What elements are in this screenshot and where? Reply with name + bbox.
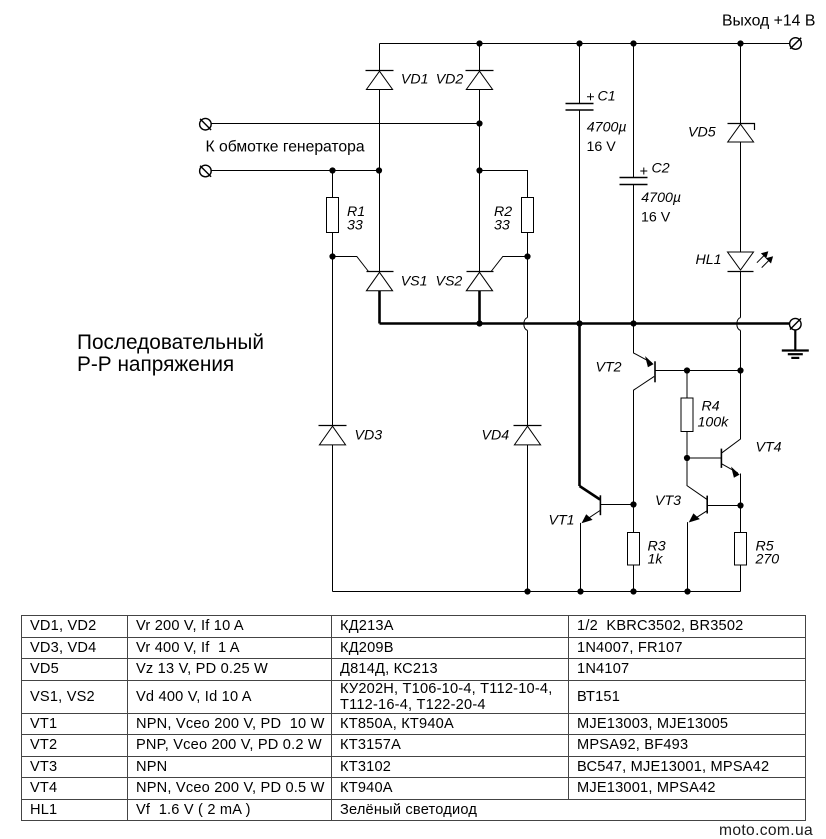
svg-text:VT3: VT3: [655, 493, 681, 509]
resistor R4: [681, 398, 693, 432]
svg-text:VS2: VS2: [436, 274, 463, 290]
wire VT3 collector: [687, 458, 707, 499]
wire VD4 to bottom rail: [527, 445, 529, 592]
wire R2 bottom lead: [527, 233, 529, 257]
wire input phase 2: [211, 170, 379, 172]
svg-text:4700µ: 4700µ: [641, 190, 681, 206]
transistor VT3 bar: [706, 496, 708, 514]
wire thick output column: [578, 324, 581, 487]
diode VD3: [319, 425, 347, 427]
svg-text:Последовательный: Последовательный: [77, 331, 264, 354]
wire R4 top lead: [686, 371, 688, 399]
wire VD1 to VS1: [379, 90, 381, 272]
transistor VT4 emitter: [722, 464, 738, 473]
thyristor VS2: [467, 271, 494, 273]
transistor VT3 emitter: [691, 511, 707, 521]
wire VD5 to HL1: [740, 142, 742, 252]
LED HL1 arrows: [757, 254, 766, 263]
diode VD1: [366, 70, 394, 72]
wire R1 column down to VD3: [332, 257, 334, 426]
wire VS1 cathode thick: [378, 291, 381, 324]
wire R5 to rail: [740, 565, 742, 592]
wire top rail: [380, 43, 790, 45]
transistor VT2 emitter: [634, 324, 652, 363]
transistor VT2 emitter arrowhead: [645, 356, 654, 367]
junction dots: [476, 40, 482, 46]
svg-text:VT2: VT2: [596, 360, 622, 376]
svg-text:VD2: VD2: [436, 72, 464, 88]
wire VD1 anode from top rail down: [379, 44, 381, 71]
transistor VT1 base lead: [601, 504, 634, 506]
svg-text:VT4: VT4: [756, 440, 782, 456]
svg-text:1k: 1k: [648, 552, 664, 568]
transistor VT2 collector: [634, 376, 655, 504]
transistor VT1 emitter: [584, 511, 600, 522]
capacitor C2 plates: [620, 177, 648, 179]
svg-text:16 V: 16 V: [587, 139, 617, 155]
parts table: [21, 615, 806, 821]
wire VS2 gate: [491, 257, 527, 272]
resistor R5: [735, 533, 747, 566]
resistor R2: [522, 198, 534, 233]
svg-text:VD3: VD3: [355, 428, 383, 444]
wire bottom rail: [333, 591, 741, 593]
wire R1 top lead: [332, 171, 334, 198]
terminal ground right: [790, 318, 802, 330]
wire input phase 1: [211, 123, 479, 125]
wire HL1 down with hop over bus: [740, 272, 742, 318]
diode VD2 wire from top rail: [479, 44, 481, 71]
wire R5 top lead: [740, 506, 742, 533]
svg-text:VD1: VD1: [401, 72, 429, 88]
wire ground bus thick: [380, 322, 790, 325]
wire VD3 to bottom rail: [332, 445, 334, 592]
wire VT1 base node to R3: [633, 505, 635, 533]
wire R2 branch: [480, 171, 528, 198]
svg-text:33: 33: [347, 218, 363, 234]
wire R4 bottom lead: [686, 432, 688, 459]
wire VT2 base to R4 and HL1 node: [656, 370, 741, 372]
capacitor C2 plus: [640, 168, 647, 175]
svg-text:C2: C2: [652, 161, 670, 177]
svg-text:Выход +14 В: Выход +14 В: [722, 13, 815, 30]
capacitor C2 leads: [633, 44, 635, 178]
LED HL1 arrowheads: [761, 251, 768, 258]
transistor VT3 base lead: [708, 505, 741, 507]
transistor VT2 bar: [654, 361, 656, 382]
svg-text:Р-Р напряжения: Р-Р напряжения: [77, 353, 234, 376]
wire R2 column down with hop over bus: [527, 257, 529, 318]
transistor VT4 collector: [722, 371, 741, 453]
resistor R1: [327, 198, 339, 233]
capacitor C1 plates: [566, 103, 594, 105]
svg-text:VT1: VT1: [549, 513, 575, 529]
resistor R3: [628, 533, 640, 566]
site watermark: [719, 822, 813, 839]
svg-text:C1: C1: [598, 89, 616, 105]
transistor VT4 emitter arrowhead: [731, 467, 740, 478]
transistor VT3 emitter arrowhead: [689, 513, 700, 522]
thyristor VS1: [367, 271, 394, 273]
transistor VT1 emitter arrowhead: [582, 514, 593, 523]
svg-text:R4: R4: [702, 399, 720, 415]
wire VD5 from top rail: [740, 44, 742, 124]
svg-text:К обмотке генератора: К обмотке генератора: [206, 139, 365, 156]
diode VD2: [466, 70, 494, 72]
wire VD2 to VS2: [479, 90, 481, 272]
capacitor C1 plus: [587, 93, 594, 100]
svg-text:270: 270: [755, 552, 780, 568]
transistor VT4 bar: [720, 449, 722, 468]
svg-text:VS1: VS1: [401, 274, 428, 290]
wire R1 bottom lead: [332, 233, 334, 257]
diode VD4: [514, 425, 542, 427]
transistor VT1 bar: [599, 495, 601, 515]
terminal input 1: [200, 118, 212, 130]
svg-text:33: 33: [494, 218, 510, 234]
svg-text:100k: 100k: [698, 415, 730, 431]
zener diode VD5: [728, 124, 755, 131]
terminal input 2: [200, 165, 212, 177]
svg-text:16 V: 16 V: [641, 210, 671, 226]
transistor VT1 collector thick: [580, 486, 601, 500]
svg-text:VD4: VD4: [482, 428, 510, 444]
wire VS2 cathode thick: [478, 291, 481, 324]
svg-text:4700µ: 4700µ: [587, 119, 627, 135]
wire VS1 gate: [333, 257, 369, 272]
capacitor C1 leads: [579, 44, 581, 104]
LED HL1: [728, 252, 754, 270]
svg-text:HL1: HL1: [696, 252, 722, 268]
svg-text:VD5: VD5: [688, 125, 716, 141]
wire R3 to rail: [633, 565, 635, 592]
ground symbol: [794, 330, 796, 350]
wire VT4 base lead: [687, 457, 721, 459]
terminal output top: [790, 38, 802, 50]
